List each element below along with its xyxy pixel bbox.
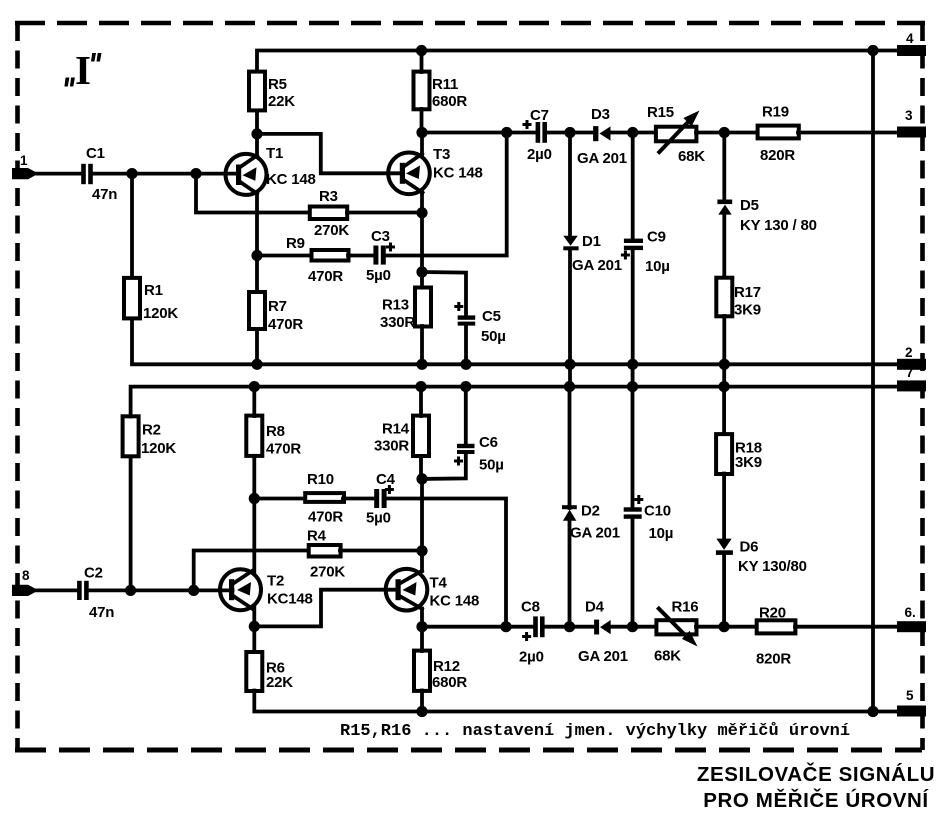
svg-text:C5: C5 bbox=[482, 308, 501, 325]
svg-text:120K: 120K bbox=[143, 305, 178, 322]
wire R13 bottom to ground rail bbox=[420, 326, 424, 364]
svg-text:1: 1 bbox=[20, 153, 28, 168]
wire C5 to ground rail bbox=[464, 325, 468, 364]
svg-text:R19: R19 bbox=[762, 104, 789, 121]
node C9 ground bbox=[627, 359, 638, 370]
node T2 collector link bbox=[249, 621, 260, 632]
wire C9 upper lead bbox=[631, 133, 635, 240]
wire link T1 collector to T3 base bbox=[257, 134, 401, 173]
node R14 rail 7 bbox=[415, 381, 426, 392]
node C10 rail 7 bbox=[627, 381, 638, 392]
node T2 emitter / R10 line bbox=[249, 493, 260, 504]
transistor T1 bbox=[226, 145, 316, 195]
wire D4 to R16 bbox=[610, 625, 657, 629]
resistor R5 bbox=[249, 72, 295, 111]
capacitor C2 bbox=[77, 565, 114, 622]
resistor R1 bbox=[124, 278, 178, 322]
capacitor C9 bbox=[621, 229, 670, 276]
wire R8 top to rail 7 bbox=[252, 387, 256, 416]
svg-text:D4: D4 bbox=[585, 599, 605, 616]
node T1 emitter / R9 line bbox=[251, 250, 262, 261]
wire D1 lower lead bbox=[568, 250, 572, 365]
node R4 tap bbox=[188, 585, 199, 596]
svg-text:50µ: 50µ bbox=[481, 328, 506, 345]
transistor T4 bbox=[386, 569, 479, 611]
node C6 rail 7 bbox=[460, 381, 471, 392]
svg-text:R1: R1 bbox=[144, 282, 163, 299]
wire R18 to D6 bbox=[722, 474, 726, 540]
terminal 4 bbox=[897, 31, 926, 56]
wire C10 lower lead bbox=[631, 518, 635, 627]
node R18 rail 7 bbox=[719, 381, 730, 392]
wire T2 emitter up bbox=[252, 499, 256, 572]
svg-text:GA 201: GA 201 bbox=[572, 257, 622, 274]
node R12 supply rail bbox=[416, 706, 427, 717]
node R3 at T3 emitter bbox=[416, 207, 427, 218]
wire R7 bottom to ground rail bbox=[255, 329, 259, 364]
wire R13 top lead bbox=[420, 272, 424, 288]
svg-text:R7: R7 bbox=[268, 298, 287, 315]
wire R2 lower lead bbox=[129, 457, 133, 590]
svg-text:470R: 470R bbox=[266, 441, 301, 458]
svg-text:22K: 22K bbox=[268, 93, 295, 110]
wire T1 collector bbox=[255, 134, 259, 157]
channel label I bbox=[64, 47, 101, 93]
dashed frame top edge bbox=[15, 21, 925, 26]
wire D2 upper lead to rail 7 bbox=[568, 387, 572, 508]
node D6 R18 tap bbox=[719, 621, 730, 632]
svg-text:50µ: 50µ bbox=[479, 457, 504, 474]
node supply rail bottom right bbox=[867, 706, 878, 717]
wire R12 leads bbox=[420, 627, 424, 651]
svg-text:2: 2 bbox=[905, 345, 913, 360]
diode D1 bbox=[563, 233, 622, 274]
svg-text:5µ0: 5µ0 bbox=[366, 510, 391, 527]
svg-text:680R: 680R bbox=[432, 674, 467, 691]
svg-text:R2: R2 bbox=[142, 422, 161, 439]
svg-text:C8: C8 bbox=[521, 599, 540, 616]
svg-text:470R: 470R bbox=[268, 316, 303, 333]
resistor R12 bbox=[414, 651, 467, 691]
svg-text:PRO MĚŘIČE ÚROVNÍ: PRO MĚŘIČE ÚROVNÍ bbox=[703, 788, 929, 812]
wire input line C1 to T1 base bbox=[93, 172, 238, 176]
node C9 tap bbox=[627, 127, 638, 138]
wire R5 bottom lead bbox=[255, 111, 259, 134]
resistor R11 bbox=[414, 72, 468, 110]
svg-text:ZESILOVAČE SIGNÁLU: ZESILOVAČE SIGNÁLU bbox=[697, 762, 935, 786]
node D1 tap bbox=[564, 127, 575, 138]
wire rail link R17 column bbox=[722, 364, 726, 386]
svg-text:4: 4 bbox=[906, 31, 914, 46]
svg-text:T2: T2 bbox=[267, 573, 284, 590]
svg-text:C1: C1 bbox=[86, 145, 105, 162]
svg-text:R14: R14 bbox=[382, 421, 410, 438]
wire R11 top lead bbox=[420, 51, 424, 73]
svg-text:470R: 470R bbox=[308, 268, 343, 285]
svg-text:22K: 22K bbox=[266, 674, 293, 691]
svg-text:5µ0: 5µ0 bbox=[366, 267, 391, 284]
wire D5 to R17 bbox=[722, 213, 726, 278]
svg-text:5: 5 bbox=[906, 688, 914, 703]
svg-text:R12: R12 bbox=[433, 658, 460, 675]
resistor R10 bbox=[305, 471, 344, 526]
wire D6 lower lead bbox=[722, 554, 726, 627]
svg-text:3K9: 3K9 bbox=[735, 454, 762, 471]
wire C6 to rail 7 bbox=[464, 387, 468, 445]
wire C7 to D3 bbox=[547, 131, 594, 135]
svg-text:270K: 270K bbox=[310, 564, 345, 581]
resistor R2 bbox=[123, 416, 177, 457]
node D2 rail 7 bbox=[564, 381, 575, 392]
wire R5 top to supply rail 4 bbox=[257, 51, 897, 72]
svg-text:C9: C9 bbox=[647, 229, 666, 246]
node D1 ground bbox=[564, 359, 575, 370]
svg-text:D2: D2 bbox=[581, 503, 600, 520]
terminal 2 bbox=[897, 345, 926, 370]
node feedback tap bbox=[190, 168, 201, 179]
capacitor C5 bbox=[454, 302, 505, 345]
svg-text:R20: R20 bbox=[759, 605, 786, 622]
wire R1 lower lead to ground rail bbox=[132, 319, 897, 365]
wire C8 to D4 bbox=[545, 625, 595, 629]
wire R9 line from T1 emitter bbox=[257, 254, 311, 258]
wire R2 upper lead to rail 7 bbox=[131, 387, 897, 417]
svg-text:R8: R8 bbox=[266, 423, 285, 440]
svg-text:820R: 820R bbox=[760, 147, 795, 164]
node R4 at T4 emitter bbox=[416, 545, 427, 556]
node C5 ground bbox=[460, 359, 471, 370]
resistor R7 bbox=[249, 292, 303, 333]
dashed frame right edge bbox=[920, 23, 925, 750]
svg-text:KC 148: KC 148 bbox=[430, 593, 480, 610]
wire D3 to R15 bbox=[610, 131, 657, 135]
capacitor C7 bbox=[523, 107, 552, 163]
wire R11 bottom lead bbox=[420, 109, 424, 133]
capacitor C3 bbox=[366, 228, 395, 284]
svg-text:820R: 820R bbox=[756, 651, 791, 668]
node supply rail right bbox=[867, 45, 878, 56]
capacitor C6 bbox=[454, 434, 504, 474]
svg-text:3K9: 3K9 bbox=[734, 302, 761, 319]
wire T2 collector down bbox=[252, 608, 256, 652]
BOTTOMHALF bbox=[12, 365, 926, 717]
svg-text:120K: 120K bbox=[141, 440, 176, 457]
wire output line T4 to C8 bbox=[422, 625, 533, 629]
svg-text:R4: R4 bbox=[307, 528, 327, 545]
svg-text:330R: 330R bbox=[380, 314, 415, 331]
svg-text:68K: 68K bbox=[678, 148, 705, 165]
wire T2 emitter node to R8 bbox=[252, 456, 256, 499]
svg-text:6.: 6. bbox=[905, 605, 916, 620]
wire D2 lower lead bbox=[568, 520, 572, 627]
svg-text:D5: D5 bbox=[740, 197, 759, 214]
svg-text:330R: 330R bbox=[374, 438, 409, 455]
svg-text:47n: 47n bbox=[89, 604, 114, 621]
svg-text:D1: D1 bbox=[582, 233, 601, 250]
wire right vertical supply link bbox=[871, 51, 875, 712]
svg-text:KC 148: KC 148 bbox=[433, 165, 483, 182]
svg-text:2µ0: 2µ0 bbox=[519, 649, 544, 666]
svg-text:KY 130/80: KY 130/80 bbox=[738, 558, 807, 575]
svg-text:10µ: 10µ bbox=[645, 258, 670, 275]
resistor R17 bbox=[716, 278, 761, 319]
resistor R18 bbox=[716, 434, 762, 474]
svg-text:R13: R13 bbox=[382, 297, 409, 314]
wire R9 to C3 bbox=[348, 254, 373, 258]
node R1 tap bbox=[126, 168, 137, 179]
svg-text:680R: 680R bbox=[432, 93, 467, 110]
node R7 ground bbox=[251, 359, 262, 370]
terminal 7 bbox=[897, 365, 926, 391]
wire R20 to terminal 6 bbox=[795, 625, 897, 629]
resistor R20 bbox=[756, 605, 795, 668]
resistor R8 bbox=[246, 416, 301, 458]
wire T1 emitter down bbox=[255, 193, 259, 291]
svg-text:R15,R16 ... nastavení jmen. vý: R15,R16 ... nastavení jmen. výchylky měř… bbox=[340, 722, 850, 741]
wire R4 branch bbox=[194, 551, 308, 591]
wire branch node to C6 bbox=[422, 452, 466, 479]
svg-text:R15: R15 bbox=[647, 104, 674, 121]
wire D5 upper lead bbox=[722, 133, 726, 201]
wire rail link D1 column bbox=[568, 364, 572, 386]
svg-text:R5: R5 bbox=[268, 76, 287, 93]
resistor R6 bbox=[246, 652, 293, 691]
wire C10 upper lead to rail 7 bbox=[631, 387, 635, 509]
svg-text:R10: R10 bbox=[307, 471, 334, 488]
resistor R14 bbox=[374, 416, 429, 456]
svg-text:R9: R9 bbox=[286, 235, 305, 252]
wire link T2 collector to T4 base bbox=[254, 590, 398, 627]
wire input line C2 to T2 base bbox=[89, 589, 233, 593]
svg-text:D3: D3 bbox=[591, 106, 610, 123]
trimmer R16 bbox=[654, 599, 698, 665]
svg-text:T4: T4 bbox=[430, 575, 448, 592]
svg-text:10µ: 10µ bbox=[649, 525, 674, 542]
svg-text:GA 201: GA 201 bbox=[577, 150, 627, 167]
wire feedback branch to R3 bbox=[196, 174, 309, 213]
node output top line at x507 bbox=[501, 127, 512, 138]
svg-text:2µ0: 2µ0 bbox=[527, 146, 552, 163]
wire R10 line from T2 emitter node bbox=[254, 497, 306, 501]
svg-text:T3: T3 bbox=[433, 146, 450, 163]
svg-text:GA 201: GA 201 bbox=[570, 525, 620, 542]
svg-text:68K: 68K bbox=[654, 648, 681, 665]
node R17 ground bbox=[719, 359, 730, 370]
svg-text:8: 8 bbox=[22, 568, 30, 583]
wire branch node to C5 bbox=[422, 272, 466, 317]
wire R4 to T4 emitter node bbox=[340, 549, 422, 553]
CAPTIONS bbox=[340, 722, 935, 812]
terminal 8 bbox=[12, 568, 39, 596]
capacitor C8 bbox=[519, 599, 545, 666]
wire R18 upper lead bbox=[722, 387, 726, 435]
wire T4 emitter up bbox=[420, 479, 424, 571]
trimmer R15 bbox=[647, 104, 705, 165]
svg-text:KY 130 / 80: KY 130 / 80 bbox=[740, 217, 817, 234]
wire R1 upper lead bbox=[130, 174, 134, 278]
wire C3 to output node bbox=[386, 133, 507, 256]
diode D2 bbox=[562, 503, 620, 542]
node output bottom line at x506 bbox=[500, 621, 511, 632]
svg-text:C3: C3 bbox=[371, 228, 390, 245]
wire input line left of C2 bbox=[34, 589, 77, 593]
node T3 collector / R11 bbox=[416, 127, 427, 138]
wire R15 to R19 bbox=[696, 131, 758, 135]
svg-text:I: I bbox=[75, 47, 91, 93]
capacitor C4 bbox=[366, 471, 396, 527]
resistor R19 bbox=[758, 104, 799, 165]
dashed frame bottom edge bbox=[15, 748, 922, 753]
dashed frame left edge bbox=[15, 23, 20, 750]
node T1 collector / R5 bbox=[251, 128, 262, 139]
node T3 emitter / R13 / C5 bbox=[416, 266, 427, 277]
wire R10 to C4 bbox=[343, 497, 374, 501]
transistor T2 bbox=[220, 569, 313, 610]
node R8 rail 7 bbox=[249, 381, 260, 392]
svg-text:270K: 270K bbox=[314, 222, 349, 239]
svg-text:R3: R3 bbox=[319, 188, 338, 205]
terminal 3 bbox=[897, 108, 926, 138]
node T4 emitter / R14 / C6 bbox=[416, 473, 427, 484]
svg-text:KC148: KC148 bbox=[267, 591, 313, 608]
node R11 supply rail bbox=[416, 45, 427, 56]
resistor R13 bbox=[380, 288, 431, 332]
wire R6 bottom to supply rail 5 bbox=[254, 691, 897, 712]
svg-text:GA 201: GA 201 bbox=[578, 648, 628, 665]
wire R12 bottom to supply rail bbox=[420, 691, 424, 712]
wire D1 upper lead bbox=[568, 133, 572, 237]
svg-text:R11: R11 bbox=[432, 76, 458, 93]
svg-text:KC 148: KC 148 bbox=[266, 171, 316, 188]
capacitor C1 bbox=[81, 145, 117, 203]
transistor T3 bbox=[388, 146, 482, 194]
wire C4 to output node bbox=[387, 499, 506, 627]
resistor R3 bbox=[310, 188, 350, 239]
capacitor C10 bbox=[624, 495, 674, 542]
svg-text:3: 3 bbox=[905, 108, 913, 123]
node D2 tap bbox=[564, 621, 575, 632]
node R13 ground bbox=[416, 359, 427, 370]
wire R17 to ground rail bbox=[722, 316, 726, 364]
svg-text:C7: C7 bbox=[530, 107, 549, 124]
svg-text:R16: R16 bbox=[672, 599, 699, 616]
svg-text:470R: 470R bbox=[308, 509, 343, 526]
wire T3 collector bbox=[420, 133, 424, 156]
terminal 6 bbox=[897, 605, 926, 632]
diode D4 bbox=[578, 599, 628, 666]
svg-text:C2: C2 bbox=[84, 565, 103, 582]
svg-text:47n: 47n bbox=[92, 186, 117, 203]
svg-text:C10: C10 bbox=[644, 503, 671, 520]
wire R3 to T3 emitter node bbox=[347, 211, 422, 215]
node T4 collector / R12 bbox=[416, 621, 427, 632]
wire input line left of C1 bbox=[34, 172, 81, 176]
wire R16 to R20 bbox=[696, 625, 758, 629]
terminal 1 bbox=[12, 153, 39, 179]
node R2 tap bbox=[125, 585, 136, 596]
svg-text:T1: T1 bbox=[266, 145, 283, 162]
svg-text:R17: R17 bbox=[734, 284, 761, 301]
wire R19 to terminal 3 bbox=[798, 131, 897, 135]
diode D6 bbox=[716, 539, 807, 576]
resistor R4 bbox=[307, 528, 345, 581]
wire R14 top to rail 7 bbox=[419, 387, 423, 416]
node C10 tap bbox=[627, 621, 638, 632]
wire T3 emitter down bbox=[420, 192, 424, 272]
wire T4 collector down bbox=[420, 609, 424, 627]
resistor R9 bbox=[286, 235, 349, 285]
wire R14 bottom lead bbox=[419, 457, 423, 479]
svg-text:C6: C6 bbox=[479, 434, 498, 451]
terminal 5 bbox=[897, 688, 926, 717]
svg-text:D6: D6 bbox=[740, 539, 759, 556]
diode D5 bbox=[717, 197, 816, 234]
wire output line R11 to C7 bbox=[422, 131, 536, 135]
wire C9 lower lead bbox=[631, 250, 635, 365]
diode D3 bbox=[577, 106, 627, 167]
node D5 R17 tap bbox=[719, 127, 730, 138]
svg-text:C4: C4 bbox=[376, 471, 396, 488]
wire rail link C9 column bbox=[631, 364, 635, 386]
svg-text:7: 7 bbox=[906, 365, 914, 380]
